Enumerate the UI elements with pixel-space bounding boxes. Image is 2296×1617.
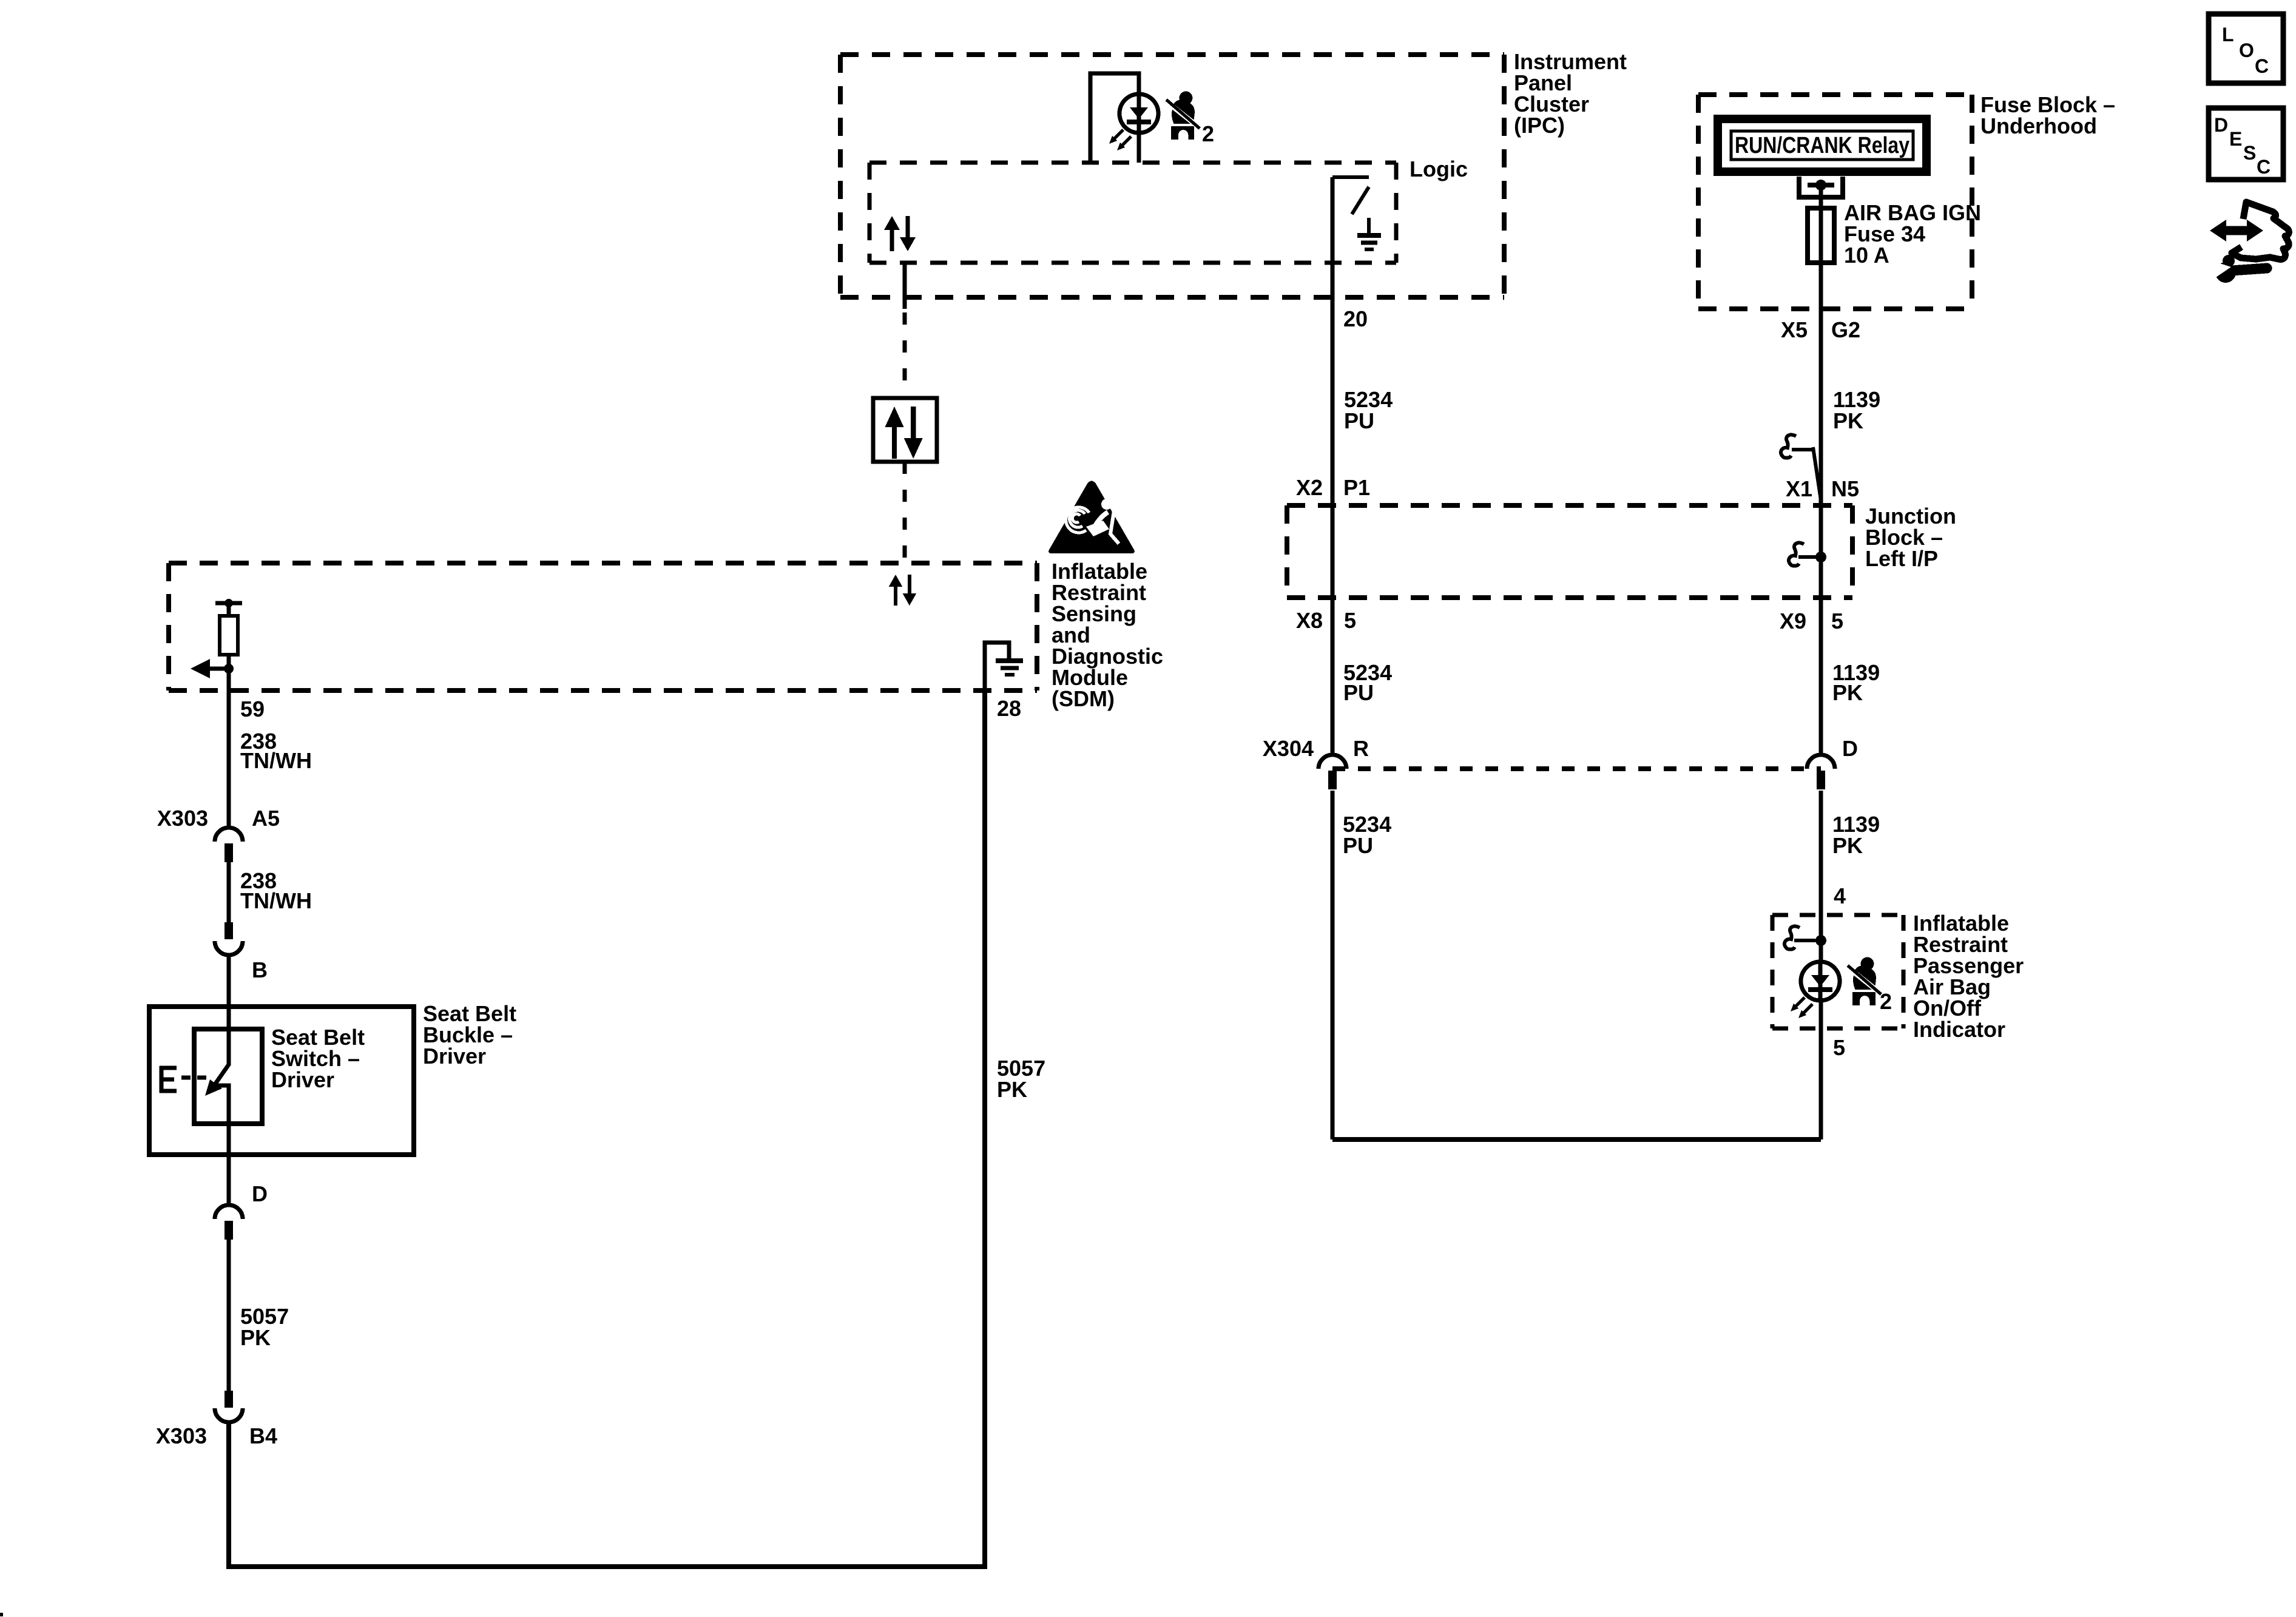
svg-text:Driver: Driver [423, 1044, 486, 1068]
svg-text:5: 5 [1344, 608, 1356, 633]
svg-text:(SDM): (SDM) [1052, 686, 1115, 711]
svg-text:L: L [2222, 24, 2234, 46]
svg-text:PK: PK [1833, 408, 1863, 433]
svg-text:D: D [2214, 114, 2228, 136]
svg-text:N5: N5 [1831, 476, 1859, 501]
svg-text:B: B [252, 957, 268, 982]
svg-text:X2: X2 [1296, 475, 1323, 500]
svg-text:10 A: 10 A [1844, 243, 1889, 268]
svg-text:X9: X9 [1780, 609, 1806, 633]
svg-text:X5: X5 [1781, 317, 1808, 342]
svg-text:X1: X1 [1786, 476, 1812, 501]
svg-text:O: O [2239, 39, 2254, 61]
svg-text:PK: PK [1832, 680, 1863, 705]
svg-text:TN/WH: TN/WH [240, 748, 312, 773]
svg-text:4: 4 [1834, 883, 1846, 908]
svg-text:20: 20 [1343, 306, 1368, 331]
svg-text:G2: G2 [1831, 317, 1860, 342]
svg-text:D: D [1842, 736, 1858, 761]
svg-text:2: 2 [1880, 989, 1892, 1014]
svg-text:Driver: Driver [271, 1067, 334, 1092]
svg-text:S: S [2243, 142, 2256, 164]
svg-text:X304: X304 [1263, 736, 1314, 761]
svg-text:E: E [2229, 128, 2242, 150]
svg-text:B4: B4 [249, 1423, 277, 1448]
svg-text:P1: P1 [1343, 475, 1370, 500]
svg-text:RUN/CRANK Relay: RUN/CRANK Relay [1735, 133, 1909, 158]
svg-text:PK: PK [1832, 833, 1863, 858]
svg-text:2: 2 [1202, 121, 1214, 146]
svg-text:PU: PU [1344, 408, 1374, 433]
svg-text:X8: X8 [1296, 608, 1323, 633]
svg-text:Logic: Logic [1410, 157, 1468, 181]
svg-text:TN/WH: TN/WH [240, 888, 312, 913]
svg-text:59: 59 [240, 697, 265, 721]
svg-text:PU: PU [1343, 680, 1374, 705]
svg-text:X303: X303 [156, 1423, 207, 1448]
svg-text:Indicator: Indicator [1913, 1017, 2005, 1042]
svg-text:D: D [252, 1181, 268, 1206]
svg-text:R: R [1353, 736, 1369, 761]
svg-text:PU: PU [1343, 833, 1373, 858]
svg-text:PK: PK [240, 1325, 271, 1350]
svg-text:A5: A5 [252, 806, 280, 831]
svg-text:C: C [2255, 55, 2269, 77]
svg-text:Underhood: Underhood [1980, 113, 2097, 138]
svg-text:Left I/P: Left I/P [1865, 546, 1938, 571]
svg-text:28: 28 [997, 696, 1021, 721]
svg-text:5: 5 [1833, 1035, 1845, 1060]
svg-text:5: 5 [1831, 609, 1843, 633]
svg-text:X303: X303 [157, 806, 208, 831]
svg-text:(IPC): (IPC) [1514, 113, 1565, 138]
svg-text:PK: PK [997, 1077, 1027, 1102]
svg-text:C: C [2257, 156, 2271, 178]
